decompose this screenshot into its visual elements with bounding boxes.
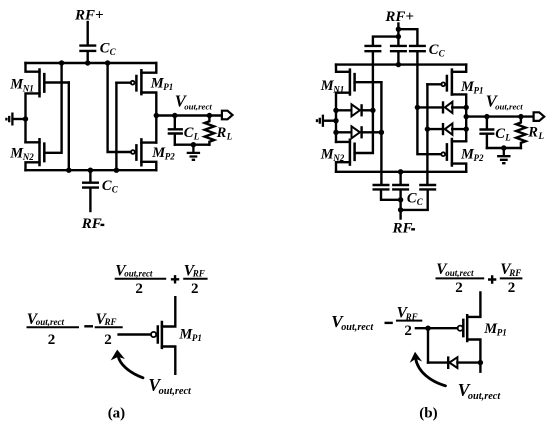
wire source fig-b xyxy=(467,340,480,363)
svg-text:P1: P1 xyxy=(163,82,173,92)
capacitor C_C (top, circuit a) xyxy=(79,46,96,51)
ground (load, circuit a) xyxy=(187,145,200,160)
svg-text:out,rect: out,rect xyxy=(36,317,65,327)
wire MP1 gate lead xyxy=(116,81,130,83)
wire MN2 source to bottom rail b xyxy=(336,162,350,172)
node dot diode1 cathode xyxy=(370,108,375,113)
wire MP2 drain xyxy=(141,141,156,143)
svg-text:2: 2 xyxy=(48,332,56,348)
wire diode2 anode xyxy=(336,131,352,133)
svg-text:L: L xyxy=(538,131,545,141)
diode D4 (output to MP1 gate) xyxy=(442,123,444,135)
wire gate lead fig-a xyxy=(119,333,151,335)
svg-text:(a): (a) xyxy=(108,406,126,422)
node dot CL junction a xyxy=(172,113,177,118)
wire RF+ to capacitor CC top xyxy=(86,22,88,44)
wire rail to center bottom cap b xyxy=(399,172,401,185)
terminal output b xyxy=(534,112,545,121)
wire right cap to MP2 gate (crosses rail) xyxy=(417,52,441,154)
wire diode1 anode xyxy=(336,109,352,111)
wire gate node down fig-b xyxy=(427,328,429,362)
node dot diode3 anode-side xyxy=(415,105,420,110)
svg-text:N1: N1 xyxy=(22,83,34,93)
wire top rail to MN2 gate xyxy=(44,63,61,153)
fraction bar 1a xyxy=(115,278,167,280)
wire MN2 drain b xyxy=(336,141,350,143)
svg-text:C: C xyxy=(100,41,110,57)
capacitor C_L a xyxy=(168,129,183,133)
node dot bottom-MN1gate xyxy=(66,168,71,173)
node dot RF+ branch right xyxy=(396,27,401,32)
capacitor C_C (bottom, circuit a) xyxy=(82,183,99,188)
wire to ground a xyxy=(13,118,26,120)
wire bottom rail to CC bottom xyxy=(89,170,91,181)
capacitor right-bottom b (gate cap MP1) xyxy=(419,185,436,189)
arrowhead fig-a xyxy=(111,350,125,361)
node dot diode2 cathode xyxy=(379,130,384,135)
wire MN1 gate to bottom rail xyxy=(68,83,70,171)
svg-text:N2: N2 xyxy=(22,152,34,162)
svg-text:C: C xyxy=(110,47,117,57)
node dot join right cap b xyxy=(398,207,403,212)
node dot gate fig-b xyxy=(425,326,430,331)
svg-text:C: C xyxy=(439,49,446,59)
svg-text:C: C xyxy=(112,184,119,194)
wire MP1 drain xyxy=(141,63,156,73)
transistor M_P2 xyxy=(136,138,141,166)
svg-text:C: C xyxy=(417,197,424,207)
ground (left, circuit b) xyxy=(317,115,323,127)
svg-text:RF: RF xyxy=(192,268,205,278)
wire MP1 source / right rail to output xyxy=(141,93,156,143)
diode fig-b (source to gate) xyxy=(447,356,449,369)
node dot diode2 anode xyxy=(333,130,338,135)
wire diode4 right xyxy=(452,128,466,130)
bubble fig-a xyxy=(151,332,156,337)
wire bottom rail (node B) xyxy=(26,169,157,171)
svg-text:out,rect: out,rect xyxy=(495,101,523,111)
wire right bottom cap join xyxy=(401,191,428,210)
svg-text:out,rect: out,rect xyxy=(341,322,374,333)
transistor M_P1 fig-a xyxy=(158,321,162,349)
svg-text:out,rect: out,rect xyxy=(468,391,501,402)
node dot bottom-CC xyxy=(88,168,93,173)
svg-text:2: 2 xyxy=(135,281,143,297)
svg-text:C: C xyxy=(429,42,439,58)
svg-text:out,rect: out,rect xyxy=(124,268,153,278)
node dot CL junction b xyxy=(484,114,489,119)
wire source fig-a xyxy=(162,347,175,374)
resistor R_L a xyxy=(205,116,214,145)
resistor R_L b xyxy=(516,117,525,148)
wire diode2 cathode xyxy=(362,131,382,133)
wire diode4 left xyxy=(427,128,442,130)
wire center bottom cap to RF- xyxy=(399,191,401,219)
wire output a xyxy=(156,114,222,116)
capacitor C_L b xyxy=(479,130,494,134)
wire CC center to top rail b xyxy=(397,52,399,64)
fraction bar left b xyxy=(396,320,422,322)
node dot ground b xyxy=(333,118,338,123)
terminal output a xyxy=(222,111,233,120)
node dot RL junction b xyxy=(518,114,523,119)
wire MP1 gate lead b xyxy=(427,83,441,85)
svg-text:L: L xyxy=(504,133,511,143)
wire CL down a xyxy=(174,135,176,145)
wire to CL b xyxy=(486,117,488,129)
bubble M_P2 gate b xyxy=(441,152,445,156)
node ground-left a xyxy=(23,116,28,121)
transistor M_N1 xyxy=(40,68,45,97)
wire load bottom b xyxy=(487,147,521,149)
wire diode1 cathode xyxy=(362,109,373,111)
wire MN2 source to bottom rail xyxy=(26,162,40,170)
bubble M_P1 gate xyxy=(131,81,135,85)
wire output stub fig-b xyxy=(479,363,481,372)
wire bottom rail b (node B) xyxy=(336,171,466,173)
bubble fig-b xyxy=(458,326,463,331)
transistor M_P2 b xyxy=(447,138,452,167)
svg-text:2: 2 xyxy=(508,280,516,296)
fraction bar 1b xyxy=(436,277,485,279)
arrow fig-a xyxy=(118,356,143,378)
node dot bottom rail CC b xyxy=(398,169,403,174)
svg-text:C: C xyxy=(495,126,505,142)
node dot diode3 at rail xyxy=(464,105,469,110)
svg-text:P2: P2 xyxy=(165,151,175,161)
label minus a xyxy=(84,325,93,327)
node dot RL junction a xyxy=(207,113,212,118)
fraction bar 2a xyxy=(183,278,207,280)
wire branch to left cap xyxy=(373,37,399,45)
wire drain fig-a xyxy=(162,297,175,326)
wire MN1 gate lead xyxy=(44,81,69,83)
ground (load, circuit b) xyxy=(497,148,510,163)
node dot output a xyxy=(154,113,159,118)
arrow fig-b xyxy=(416,359,446,386)
wire top rail b (node A) xyxy=(336,63,466,65)
wire MP1 gate to right bottom cap (crosses rail) xyxy=(426,84,428,185)
wire branch to right cap xyxy=(398,29,417,45)
wire load bottom a xyxy=(175,143,210,145)
wire diode3 right xyxy=(452,106,466,108)
svg-text:2: 2 xyxy=(455,280,463,296)
svg-text:out,rect: out,rect xyxy=(184,101,212,111)
wire top rail to MP2 gate xyxy=(108,63,131,152)
svg-text:2: 2 xyxy=(104,332,112,348)
wire MP1 drain b xyxy=(452,65,466,72)
node dot join left cap b xyxy=(398,197,403,202)
svg-text:C: C xyxy=(102,178,112,194)
node dot bottom-MP1gate xyxy=(114,168,119,173)
wire RF+ down b xyxy=(397,24,399,45)
svg-text:P2: P2 xyxy=(474,153,484,163)
svg-text:L: L xyxy=(226,132,233,142)
wire MN1 gate lead b xyxy=(355,81,382,83)
node dot ground load b xyxy=(501,145,506,150)
diode D1 (gnd to MN2 gate) xyxy=(352,104,360,116)
wire left cap to MN2 gate (crosses rail) xyxy=(355,52,373,153)
node dot diode4 at rail xyxy=(464,126,469,131)
capacitor left-bottom b (gate cap MN1) xyxy=(373,185,390,189)
node dot output b xyxy=(464,114,469,119)
transistor M_P1 b xyxy=(447,68,452,95)
svg-text:C: C xyxy=(184,125,194,141)
wire MP2 source to bottom rail b xyxy=(452,164,466,172)
wire gate lead fig-b xyxy=(416,327,458,329)
transistor M_N1 b xyxy=(350,68,355,95)
svg-text:R: R xyxy=(216,125,227,141)
wire to ground b xyxy=(323,119,336,121)
node dot rail-MP2gate xyxy=(105,60,110,65)
wire MN1 source / left rail mid xyxy=(26,93,40,142)
node dot ground load a xyxy=(191,142,196,147)
node dot diode4 anode-side xyxy=(425,126,430,131)
svg-text:P1: P1 xyxy=(497,328,507,338)
node dot rail-CC xyxy=(85,60,90,65)
label minus b xyxy=(385,322,393,324)
svg-text:RF: RF xyxy=(392,221,413,237)
wire MP2 source to bottom rail xyxy=(141,162,156,170)
svg-text:RF: RF xyxy=(508,268,521,278)
svg-text:(b): (b) xyxy=(419,406,437,422)
svg-text:C: C xyxy=(407,191,417,207)
ground (left, circuit a) xyxy=(6,113,12,126)
wire CC bottom to RF- xyxy=(89,189,91,211)
wire MN2 drain xyxy=(26,141,40,143)
wire MP1 source / right rail to output b xyxy=(452,94,466,141)
wire left bottom cap join xyxy=(381,191,401,200)
svg-text:R: R xyxy=(527,125,538,141)
svg-text:P1: P1 xyxy=(474,86,484,96)
wire diode fig-b left xyxy=(428,361,447,363)
node dot RF+ branch left xyxy=(396,34,401,39)
arrowhead fig-b xyxy=(410,352,422,363)
capacitor C_C center-bottom b xyxy=(392,185,409,189)
wire output b xyxy=(466,115,534,117)
wire MN1 source / left rail mid b xyxy=(336,93,350,142)
bubble M_P1 gate b xyxy=(441,82,445,86)
label plus b xyxy=(488,275,496,283)
fraction bar left2 a xyxy=(95,326,123,328)
diode D3 (output to MP2 gate) xyxy=(442,101,444,113)
wire diode3 left xyxy=(417,106,442,108)
node dot CC rail b xyxy=(396,62,401,67)
node dot rail-MN2gate xyxy=(59,60,64,65)
svg-text:P1: P1 xyxy=(192,333,202,343)
wire MP2 drain b xyxy=(452,140,466,142)
label plus a xyxy=(171,275,179,283)
svg-text:RF: RF xyxy=(104,317,117,327)
wire MP1 gate to bottom rail xyxy=(115,83,117,171)
transistor M_N2 b xyxy=(350,139,355,166)
svg-text:RF: RF xyxy=(81,216,102,232)
wire to CL a xyxy=(174,116,176,129)
capacitor left-top b (gate cap MN2) xyxy=(364,46,381,51)
svg-text:out,rect: out,rect xyxy=(159,386,192,397)
fraction bar left a xyxy=(27,326,80,328)
wire diode fig-b right xyxy=(457,361,480,363)
fraction bar 2b xyxy=(500,277,523,279)
wire MN1 drain b xyxy=(336,65,350,72)
node dot source-diode fig-b xyxy=(478,360,483,365)
capacitor right-top b (gate cap MP2) xyxy=(409,46,426,51)
wire CL down b xyxy=(486,135,488,148)
bubble M_P2 gate xyxy=(131,150,135,154)
wire CC to top rail xyxy=(86,52,88,63)
transistor M_P1 xyxy=(136,69,141,95)
svg-text:2: 2 xyxy=(404,323,412,339)
wire top rail (node A) xyxy=(26,62,157,64)
wire drain fig-b xyxy=(467,293,480,317)
svg-text:out,rect: out,rect xyxy=(445,268,474,278)
node dot diode1 anode xyxy=(333,108,338,113)
svg-text:L: L xyxy=(193,132,200,142)
capacitor C_C center-top b xyxy=(390,46,407,51)
transistor M_P1 fig-b xyxy=(463,314,467,342)
wire MN1 drain xyxy=(26,63,40,72)
svg-text:2: 2 xyxy=(191,281,199,297)
transistor M_N2 xyxy=(40,138,45,166)
diode D2 (gnd to MN1 gate) xyxy=(352,126,360,138)
wire MN1 gate to bottom cap (crosses bottom rail) xyxy=(380,82,382,185)
